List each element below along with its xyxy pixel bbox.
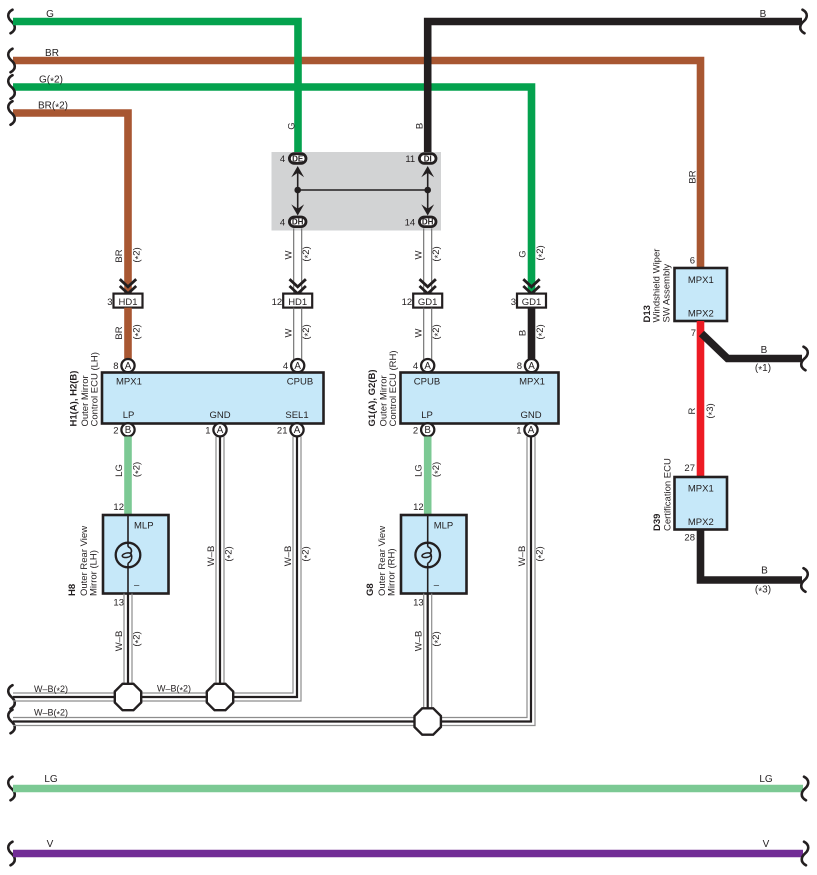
svg-text:CPUB: CPUB	[414, 377, 440, 388]
wire W-B(*2) below mirror G8	[423, 594, 425, 710]
down arrow to DH left	[291, 204, 304, 215]
svg-text:LP: LP	[421, 410, 433, 421]
svg-text:B: B	[415, 123, 426, 129]
svg-text:4: 4	[280, 154, 285, 165]
wire LG(*2) from ECU to mirror H8	[124, 437, 132, 516]
svg-text:(*2): (*2)	[301, 246, 314, 261]
svg-text:BR: BR	[45, 48, 59, 59]
svg-text:GND: GND	[520, 410, 541, 421]
svg-text:(*2): (*2)	[301, 324, 314, 339]
svg-text:W: W	[284, 250, 295, 259]
svg-text:(*2): (*2)	[224, 546, 237, 561]
ECU H1 pin 1 A	[213, 423, 226, 436]
svg-text:(*2): (*2)	[431, 631, 444, 646]
wire B(*3) from D39 pin 28	[701, 530, 803, 581]
svg-text:28: 28	[684, 533, 695, 544]
connector arrow into HD1 (BR)	[120, 279, 136, 287]
up arrow to DI	[421, 166, 434, 177]
svg-text:(*2): (*2)	[431, 462, 444, 477]
wire W(*2) from GD1 to RH ECU pin 4	[423, 308, 425, 359]
svg-text:G(*2): G(*2)	[39, 75, 63, 88]
svg-text:DI: DI	[424, 154, 432, 163]
svg-text:D39: D39	[652, 514, 663, 531]
ground bus line 1 left segment	[8, 685, 15, 709]
wire W pair from DH right down	[423, 228, 425, 293]
svg-text:(*2): (*2)	[301, 546, 314, 561]
svg-text:B: B	[424, 425, 431, 436]
junction box HD1 pin 3	[114, 294, 143, 308]
svg-text:G8: G8	[365, 583, 376, 596]
svg-text:(*2): (*2)	[535, 324, 548, 339]
wire V bottom bus	[8, 842, 15, 866]
ground junction J2	[207, 684, 233, 710]
svg-text:W–B: W–B	[414, 631, 425, 652]
wire W-B(*2) from LH ECU SEL1 pin 21 with corner to junction	[234, 437, 294, 694]
junction box HD1 pin 12	[283, 294, 312, 308]
ECU H1 pin 8 A	[121, 359, 134, 372]
ECU G1 pin 4 A	[421, 359, 434, 372]
svg-text:(*2): (*2)	[132, 462, 145, 477]
svg-text:(*3): (*3)	[755, 585, 771, 598]
ECU G1 pin 8 A	[525, 359, 538, 372]
junction box GD1 pin 12	[413, 294, 442, 308]
svg-text:12: 12	[402, 297, 413, 308]
svg-text:1: 1	[516, 425, 521, 436]
svg-text:GD1: GD1	[522, 297, 542, 308]
connector arrow into GD1 (W)	[420, 279, 436, 287]
block RH Outer Mirror Control ECU G1(A) G2(B)	[401, 373, 559, 424]
svg-text:A: A	[528, 425, 535, 436]
wire W pair from DH left down	[293, 228, 295, 293]
ground junction J1	[115, 684, 141, 710]
svg-text:W–B(*2): W–B(*2)	[34, 684, 68, 696]
svg-text:A: A	[217, 425, 224, 436]
svg-text:LG: LG	[414, 464, 425, 477]
wire BR (brown) horizontal to D13	[13, 61, 701, 269]
svg-text:14: 14	[405, 217, 416, 228]
svg-text:(*2): (*2)	[132, 324, 145, 339]
svg-text:4: 4	[280, 217, 285, 228]
up arrow to DE	[291, 166, 304, 177]
wire W-B(*2) below mirror H8	[123, 594, 125, 685]
svg-text:SEL1: SEL1	[285, 410, 308, 421]
svg-text:MPX1: MPX1	[519, 377, 545, 388]
wire R(*3) from D13 pin 7 to D39 pin 27	[697, 321, 705, 477]
svg-text:SW Assembly: SW Assembly	[662, 264, 673, 323]
svg-text:12: 12	[113, 502, 124, 513]
svg-text:A: A	[424, 361, 431, 372]
lamp wire inside G8	[427, 515, 429, 547]
svg-text:DH: DH	[292, 218, 304, 227]
ECU H1 pin 21 A	[290, 423, 303, 436]
connector DE pin 4	[289, 154, 306, 164]
svg-text:H1(A), H2(B): H1(A), H2(B)	[69, 371, 80, 427]
svg-text:2: 2	[113, 425, 118, 436]
svg-text:GND: GND	[209, 410, 230, 421]
svg-text:1: 1	[205, 425, 210, 436]
svg-text:21: 21	[277, 425, 288, 436]
connector DH pin 4	[289, 217, 306, 227]
svg-text:BR: BR	[114, 326, 125, 339]
wire LG bottom bus	[8, 777, 15, 801]
svg-text:(*2): (*2)	[535, 546, 548, 561]
lamp symbol G8	[415, 543, 440, 568]
svg-text:12: 12	[272, 297, 283, 308]
wire B(*2) from GD1 to RH ECU pin 8	[528, 308, 536, 359]
wire LG(*2) from ECU to mirror G8	[424, 437, 432, 516]
wire BR(*2) (brown) horizontal then down to HD1	[13, 113, 128, 294]
svg-text:27: 27	[684, 463, 695, 474]
wire BR(*2) from HD1 to LH ECU pin 8	[124, 308, 132, 359]
svg-text:13: 13	[113, 598, 124, 609]
svg-text:G1(A), G2(B): G1(A), G2(B)	[367, 370, 378, 427]
ground junction J3	[415, 708, 441, 734]
svg-text:13: 13	[413, 598, 424, 609]
block G8 Outer Rear View Mirror (RH)	[401, 515, 467, 594]
svg-text:LP: LP	[123, 410, 135, 421]
svg-text:H8: H8	[67, 584, 78, 596]
svg-text:MPX1: MPX1	[688, 275, 714, 286]
svg-text:6: 6	[690, 256, 695, 267]
wire B(*1) branch from D13 pin 7	[702, 334, 803, 359]
svg-text:–: –	[134, 580, 140, 591]
svg-text:BR: BR	[114, 249, 125, 262]
wire W(*2) from HD1 to LH ECU pin 4	[293, 308, 295, 359]
svg-text:W: W	[414, 250, 425, 259]
svg-text:W–B: W–B	[114, 631, 125, 652]
wire G(*2) (green) horizontal to GD1	[13, 87, 532, 294]
svg-text:A: A	[294, 361, 301, 372]
svg-text:W: W	[414, 328, 425, 337]
svg-text:3: 3	[511, 297, 516, 308]
wire W-B(*2) from RH ECU GND pin 1 with corner	[441, 437, 527, 718]
svg-text:2: 2	[413, 425, 418, 436]
svg-text:BR(*2): BR(*2)	[38, 101, 68, 114]
svg-text:12: 12	[413, 502, 424, 513]
svg-text:W–B: W–B	[517, 546, 528, 567]
wire G (green) top-left horizontal with continuation squiggle	[8, 10, 15, 34]
svg-text:V: V	[47, 839, 54, 850]
junction dot left	[294, 187, 301, 194]
svg-text:A: A	[528, 361, 535, 372]
junction dot right	[424, 187, 431, 194]
svg-text:BR: BR	[688, 170, 699, 183]
svg-text:(*2): (*2)	[431, 324, 444, 339]
svg-text:8: 8	[113, 361, 118, 372]
thin link line right column	[427, 168, 429, 212]
svg-text:Certification ECU: Certification ECU	[663, 458, 674, 531]
svg-text:Control ECU (RH): Control ECU (RH)	[388, 350, 399, 426]
ECU H1 pin 2 B	[121, 423, 134, 436]
junction box GD1 pin 3	[517, 294, 546, 308]
ground bus line 2	[8, 710, 15, 734]
svg-text:Control ECU (LH): Control ECU (LH)	[90, 352, 101, 426]
svg-text:MPX1: MPX1	[688, 484, 714, 495]
svg-text:–: –	[434, 580, 440, 591]
svg-text:11: 11	[405, 154, 415, 165]
svg-text:W: W	[284, 328, 295, 337]
svg-text:MLP: MLP	[134, 521, 154, 532]
svg-text:4: 4	[413, 361, 418, 372]
svg-text:MPX1: MPX1	[116, 377, 142, 388]
svg-text:DE: DE	[292, 154, 304, 163]
op block LH Outer Mirror Control ECU H1(A) H2(B)	[102, 373, 324, 424]
svg-text:(*2): (*2)	[535, 245, 548, 260]
gray junction-connector block	[272, 152, 442, 231]
svg-text:8: 8	[517, 361, 522, 372]
svg-text:MPX2: MPX2	[688, 517, 714, 528]
svg-text:CPUB: CPUB	[287, 377, 313, 388]
connector DH pin 14	[419, 217, 436, 227]
connector DI pin 11	[419, 154, 436, 164]
svg-text:Mirror (RH): Mirror (RH)	[387, 549, 398, 597]
svg-text:LG: LG	[44, 774, 58, 785]
wire B (black) top-right horizontal	[428, 22, 802, 154]
svg-text:7: 7	[691, 328, 696, 339]
connector arrow into HD1 (W)	[290, 279, 306, 287]
ECU G1 pin 2 B	[421, 423, 434, 436]
svg-text:A: A	[294, 425, 301, 436]
svg-text:4: 4	[283, 361, 288, 372]
svg-text:R: R	[687, 407, 698, 414]
ECU G1 pin 1 A	[524, 423, 537, 436]
svg-text:(*3): (*3)	[705, 403, 718, 418]
svg-text:3: 3	[107, 297, 112, 308]
svg-text:GD1: GD1	[418, 297, 438, 308]
ECU H1 pin 4 A	[291, 359, 304, 372]
down arrow to DH right	[421, 204, 434, 215]
svg-text:DH: DH	[422, 218, 434, 227]
connector arrow into GD1 (G)	[523, 279, 539, 287]
svg-text:B: B	[761, 345, 768, 356]
svg-text:A: A	[125, 361, 132, 372]
svg-text:HD1: HD1	[118, 297, 137, 308]
svg-text:(*2): (*2)	[132, 247, 145, 262]
svg-text:B: B	[125, 425, 132, 436]
svg-text:B: B	[761, 566, 768, 577]
ground bus line 1 middle segment	[140, 692, 209, 694]
block H8 Outer Rear View Mirror (LH)	[103, 515, 169, 594]
svg-text:W–B: W–B	[283, 546, 294, 567]
svg-text:(*2): (*2)	[431, 246, 444, 261]
block D39 Certification ECU	[675, 477, 728, 530]
svg-text:W–B: W–B	[206, 546, 217, 567]
wire W-B(*2) from LH ECU GND pin 1	[215, 437, 217, 685]
svg-text:MPX2: MPX2	[688, 308, 714, 319]
svg-text:B: B	[760, 9, 767, 20]
svg-text:(*2): (*2)	[132, 631, 145, 646]
svg-text:(*1): (*1)	[755, 363, 771, 376]
svg-text:B: B	[518, 330, 529, 336]
lamp symbol H8	[116, 543, 141, 568]
svg-text:G: G	[287, 122, 298, 129]
thin link line left column	[297, 168, 299, 212]
lamp wire inside H8	[127, 515, 129, 547]
svg-text:MLP: MLP	[434, 521, 454, 532]
svg-text:Mirror (LH): Mirror (LH)	[89, 550, 100, 596]
svg-text:V: V	[763, 839, 770, 850]
thin link line horizontal	[298, 189, 428, 191]
svg-text:G: G	[518, 250, 529, 257]
svg-text:HD1: HD1	[288, 297, 307, 308]
svg-text:LG: LG	[759, 774, 773, 785]
svg-text:G: G	[46, 9, 54, 20]
svg-text:LG: LG	[114, 464, 125, 477]
